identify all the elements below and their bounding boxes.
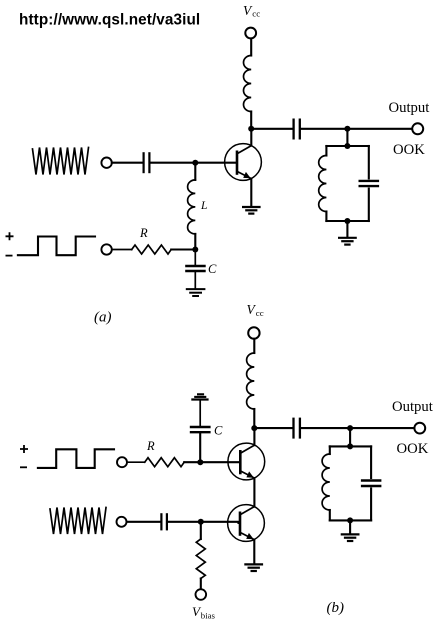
- Vcc terminal (a): [245, 28, 256, 39]
- tank inductor (b): [322, 446, 330, 520]
- inductor L (a): [188, 180, 196, 234]
- wire base node down to bias resistor (b): [200, 522, 202, 539]
- label minus (b): [20, 466, 27, 468]
- ground tank (a): [338, 238, 357, 245]
- ground C (a): [186, 289, 206, 296]
- wire tank junction down (b): [349, 428, 351, 446]
- square wave source symbol (b): [38, 449, 114, 468]
- wire base node to base Q1 (b): [200, 461, 239, 463]
- svg-text:http://www.qsl.net/va3iul: http://www.qsl.net/va3iul: [19, 12, 200, 29]
- wire terminal to resistor (a): [112, 249, 132, 251]
- node tank junction (b): [347, 425, 353, 431]
- node tank junction (a): [344, 126, 350, 132]
- svg-text:(a): (a): [94, 310, 112, 326]
- wire terminal to resistor (b): [127, 461, 145, 463]
- wire resistor to Vbias terminal (b): [200, 579, 202, 590]
- ground tank (b): [341, 534, 360, 541]
- svg-text:L: L: [200, 200, 207, 212]
- svg-text:cc: cc: [256, 308, 264, 318]
- input terminal square (a): [101, 244, 111, 254]
- resistor R (a): [132, 245, 172, 254]
- tank capacitor (a): [359, 146, 380, 221]
- output terminal (b): [414, 423, 425, 434]
- wire Vcc to choke (a): [250, 39, 252, 56]
- svg-text:(b): (b): [327, 600, 345, 616]
- input terminal sine (b): [117, 517, 127, 527]
- svg-text:bias: bias: [201, 610, 216, 620]
- label plus (b): [20, 445, 28, 453]
- wire output cap to terminal (b): [301, 427, 414, 429]
- svg-text:C: C: [208, 262, 217, 276]
- wire Q1 emitter to Q2 collector (b): [253, 478, 255, 507]
- input coupling capacitor (a): [144, 152, 150, 173]
- tank top wire (a): [326, 145, 368, 147]
- square wave source symbol (a): [18, 237, 95, 256]
- capacitor C (b): [190, 427, 211, 432]
- wire resistor to RC node (a): [171, 248, 195, 250]
- output terminal (a): [412, 123, 423, 134]
- svg-text:OOK: OOK: [397, 441, 429, 457]
- tank bottom wire (b): [330, 519, 371, 521]
- svg-text:Output: Output: [389, 100, 430, 116]
- node tank bottom (b): [347, 517, 353, 523]
- node collector junction (b): [251, 425, 257, 431]
- transistor Q1 (a): [225, 144, 262, 181]
- tank top wire (b): [330, 445, 371, 447]
- wire capacitor C to base node (b): [199, 433, 201, 462]
- wire base node down to L (a): [194, 163, 196, 180]
- inductor choke (a): [244, 56, 252, 112]
- wire choke to collector node (b): [253, 409, 255, 428]
- node tank top (b): [347, 443, 353, 449]
- wire ground to capacitor C (b): [199, 400, 201, 426]
- svg-text:R: R: [139, 226, 148, 240]
- svg-text:C: C: [214, 424, 223, 438]
- wire RC node to capacitor C (a): [194, 250, 196, 266]
- wire Vcc to choke (b): [253, 339, 255, 353]
- wire L to RC node (a): [194, 234, 196, 250]
- transistor Q2 (b): [228, 505, 265, 542]
- resistor Rbias (b): [196, 539, 205, 578]
- svg-text:R: R: [146, 439, 155, 453]
- wire output cap to terminal (a): [301, 128, 412, 130]
- Vbias terminal (b): [196, 589, 207, 600]
- tank bottom wire (a): [326, 220, 368, 222]
- label Vcc (b): [247, 302, 264, 318]
- wire resistor to base node (b): [184, 461, 200, 463]
- wire Q2 emitter to ground (b): [253, 540, 255, 564]
- node tank bottom (a): [344, 218, 350, 224]
- sine source symbol (a): [33, 148, 89, 175]
- wire collector node to output cap (b): [254, 427, 292, 429]
- wire tank to ground (b): [349, 520, 351, 533]
- wire tank junction down (a): [346, 129, 348, 146]
- output coupling capacitor (a): [294, 119, 300, 140]
- resistor R (b): [145, 458, 185, 467]
- svg-text:Output: Output: [392, 399, 433, 415]
- label Vbias (b): [192, 604, 216, 620]
- node base junction (a): [192, 160, 198, 166]
- label plus (a): [6, 232, 14, 240]
- node base junction Q2 (b): [198, 519, 204, 525]
- wire Q1 collector (b): [253, 428, 255, 445]
- ground emitter (a): [242, 207, 261, 214]
- wire input cap to base node (a): [151, 162, 196, 164]
- tank capacitor (b): [361, 446, 382, 520]
- inductor choke (b): [247, 353, 255, 409]
- wire terminal to input cap (b): [127, 521, 161, 523]
- label Vcc (a): [243, 3, 260, 19]
- svg-text:OOK: OOK: [393, 142, 425, 158]
- node base junction Q1 (b): [197, 459, 203, 465]
- input terminal square (b): [117, 457, 127, 467]
- capacitor C (a): [185, 266, 206, 271]
- wire input cap to base node Q2 (b): [168, 521, 201, 523]
- wire emitter to ground (a): [250, 179, 252, 207]
- wire base node to base (a): [195, 162, 236, 164]
- transistor Q1 (b): [228, 443, 265, 480]
- wire choke to collector node (a): [250, 112, 252, 129]
- Vcc terminal (b): [248, 327, 259, 338]
- wire tank to ground (a): [346, 221, 348, 237]
- flipped ground above C (b): [191, 394, 208, 399]
- wire capacitor C to ground (a): [194, 272, 196, 288]
- wire collector node to output cap (a): [251, 128, 292, 130]
- output coupling capacitor (b): [294, 418, 300, 439]
- node tank top (a): [344, 143, 350, 149]
- svg-text:cc: cc: [252, 9, 260, 19]
- sine source symbol (b): [50, 508, 106, 535]
- node collector junction (a): [248, 126, 254, 132]
- node RC junction (a): [192, 247, 198, 253]
- wire collector (a): [250, 129, 252, 146]
- input terminal sine (a): [101, 158, 111, 168]
- tank inductor (a): [319, 146, 327, 221]
- ground emitter (b): [244, 564, 263, 571]
- input coupling capacitor (b): [161, 513, 167, 530]
- wire terminal to input cap (a): [112, 162, 142, 164]
- wire base node to base Q2 (b): [201, 522, 239, 523]
- label minus (a): [6, 255, 13, 257]
